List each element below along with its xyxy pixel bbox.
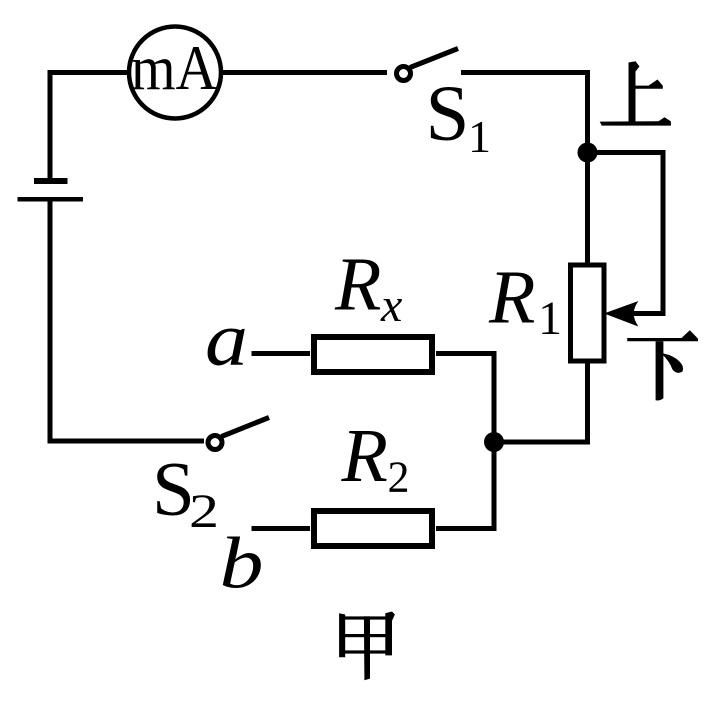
svg-text:x: x [380, 279, 402, 332]
svg-text:R: R [488, 256, 535, 340]
svg-text:b: b [220, 523, 264, 604]
svg-text:mA: mA [131, 33, 217, 103]
svg-text:1: 1 [538, 292, 562, 345]
svg-text:1: 1 [468, 111, 491, 162]
svg-text:2: 2 [189, 485, 219, 538]
svg-text:a: a [205, 298, 248, 382]
svg-text:R: R [341, 414, 388, 498]
svg-text:S: S [426, 71, 470, 158]
svg-text:R: R [334, 243, 381, 327]
svg-text:2: 2 [388, 453, 410, 502]
